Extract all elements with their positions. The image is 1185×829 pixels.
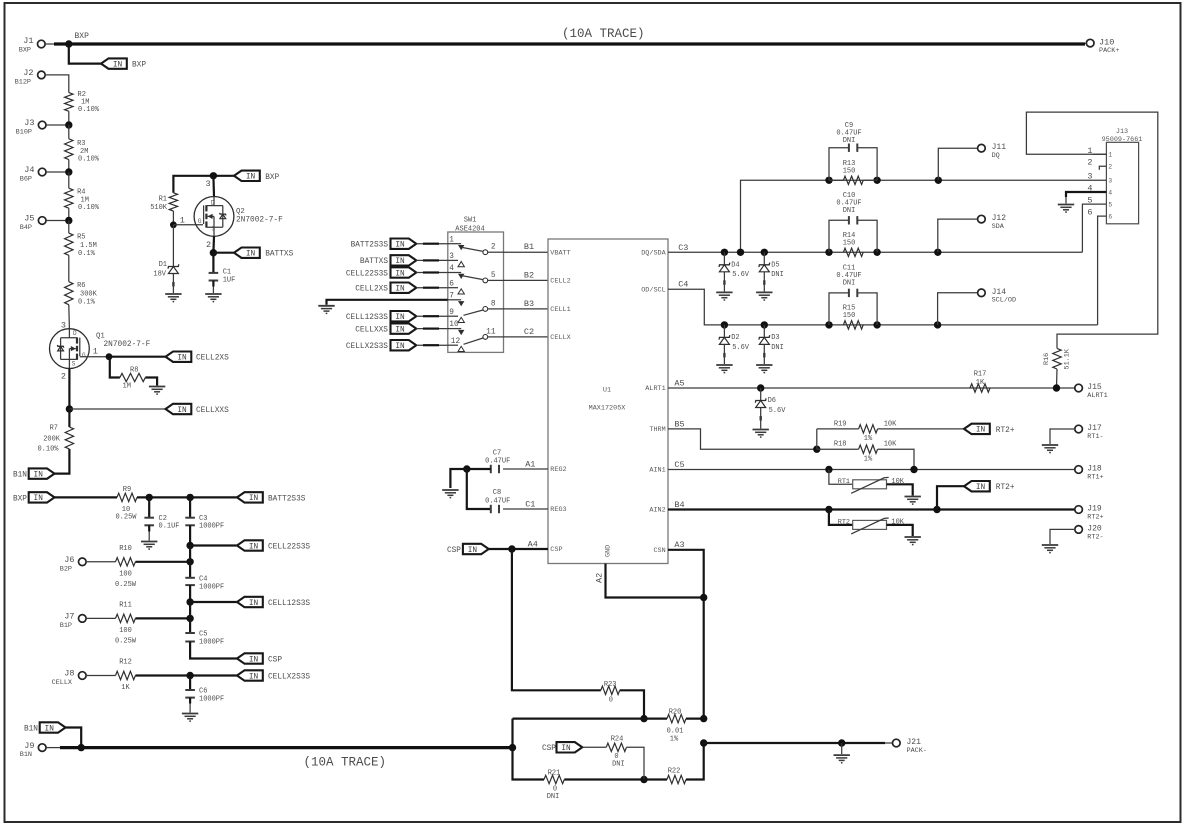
svg-text:G: G [82, 352, 86, 359]
svg-text:300K: 300K [80, 290, 98, 298]
resistor R22 [644, 768, 686, 784]
wire R20 row drop [511, 719, 513, 748]
flag IN CELL12S3S [237, 597, 310, 608]
svg-text:IN: IN [246, 174, 256, 182]
wire RT1 to ground [887, 484, 913, 495]
junction R15 right [873, 321, 880, 328]
wire node to ground [450, 469, 466, 488]
svg-text:IN: IN [395, 270, 405, 278]
connector J12 [978, 214, 1007, 231]
svg-text:6: 6 [449, 280, 454, 288]
flag IN B1N (bottom) [24, 722, 66, 733]
svg-text:DQ: DQ [992, 152, 1000, 160]
junction DQ left [825, 177, 832, 184]
wire to CELL12S3S flag [190, 601, 237, 603]
svg-text:1UF: 1UF [223, 277, 236, 285]
svg-text:CELL12S3S: CELL12S3S [268, 600, 310, 608]
svg-text:J18: J18 [1087, 465, 1102, 474]
SW1 switch 3 [464, 300, 504, 315]
wire J21 row [704, 742, 893, 744]
flag IN BXP (J1) [101, 58, 146, 69]
svg-text:7: 7 [449, 292, 454, 300]
connector J21 [893, 738, 927, 755]
svg-text:11: 11 [486, 328, 496, 336]
junction J4 [65, 168, 72, 175]
svg-text:CSP: CSP [542, 745, 556, 753]
svg-text:0.1%: 0.1% [78, 250, 96, 258]
junction CELL12S3S [186, 598, 193, 605]
resistor R18 [817, 441, 897, 464]
ground at C7/C8 [442, 490, 458, 498]
svg-text:IN: IN [249, 495, 259, 503]
wire C2 to CELLX [504, 327, 549, 337]
svg-text:B6P: B6P [20, 176, 32, 184]
svg-text:DNI: DNI [612, 760, 625, 768]
ground at RT1 [905, 497, 921, 505]
svg-text:0.10%: 0.10% [78, 106, 100, 114]
connector J7 [60, 612, 86, 630]
flag IN CELL22S3S [237, 540, 310, 551]
wire THRM row [668, 419, 817, 449]
svg-text:D3: D3 [771, 334, 779, 342]
svg-text:J5: J5 [24, 214, 34, 224]
wire J13 pin4 to ground [1066, 192, 1106, 204]
wire R22 up to J21 row [686, 743, 704, 780]
connector J9 [20, 741, 60, 759]
svg-text:5.6V: 5.6V [769, 407, 787, 415]
wire CSP down to R23 [512, 549, 601, 690]
zener D4 [719, 252, 750, 291]
SW1 switch 2 [463, 272, 504, 283]
junction D5 [761, 249, 768, 256]
wire R23 to R20 node [620, 690, 644, 718]
svg-text:2N7002-7-F: 2N7002-7-F [236, 217, 283, 225]
svg-text:ALRT1: ALRT1 [645, 385, 665, 393]
SW1 pin 6 [448, 280, 465, 294]
junction DQ vert [737, 249, 744, 256]
ground at D5 [756, 292, 772, 300]
flag IN BXP (R9) [13, 492, 55, 503]
flag IN CSP (left) [237, 653, 282, 664]
svg-text:1000PF: 1000PF [199, 523, 224, 531]
svg-text:B10P: B10P [16, 129, 32, 137]
flag IN CELL12S3S (SW1) [346, 311, 448, 322]
resistor R5 [65, 233, 97, 258]
svg-text:J7: J7 [64, 612, 74, 622]
ground at R8 [149, 387, 165, 395]
svg-text:3: 3 [449, 253, 454, 261]
svg-text:R9: R9 [123, 486, 131, 494]
resistor R19 [834, 420, 897, 443]
svg-text:D5: D5 [771, 261, 779, 269]
svg-text:J17: J17 [1087, 424, 1102, 433]
svg-text:(10A TRACE): (10A TRACE) [304, 756, 387, 770]
transistor Q2 [194, 197, 283, 237]
svg-text:1%: 1% [864, 435, 873, 443]
svg-text:R22: R22 [668, 768, 681, 776]
flag IN BATT2S3S (SW1) [351, 239, 448, 250]
svg-text:8: 8 [491, 300, 496, 308]
resistor R1 [150, 193, 177, 212]
junction rail J6 [186, 558, 193, 565]
junction RT2 [825, 506, 832, 513]
svg-text:R10: R10 [119, 545, 132, 553]
svg-text:0.47UF: 0.47UF [485, 497, 510, 505]
junction CELLXXS [66, 405, 73, 412]
svg-text:5.6V: 5.6V [732, 344, 750, 352]
svg-text:1: 1 [93, 347, 98, 357]
resistor R20 [667, 709, 686, 744]
connector J6 [60, 555, 86, 573]
svg-text:1: 1 [1108, 152, 1112, 159]
junction C7/C8 [463, 465, 470, 472]
svg-text:PACK+: PACK+ [1099, 47, 1119, 55]
svg-text:RT1+: RT1+ [1087, 473, 1103, 481]
svg-text:B5: B5 [674, 419, 684, 429]
wire AIN2 row [668, 500, 1075, 510]
switch SW1 box [448, 217, 504, 353]
svg-text:2N7002-7-F: 2N7002-7-F [104, 341, 151, 349]
svg-text:IN: IN [177, 407, 187, 415]
svg-text:Q2: Q2 [236, 208, 245, 216]
wire Q2 drain [206, 176, 215, 197]
svg-text:RT1-: RT1- [1087, 433, 1103, 441]
connector J15 [1075, 383, 1108, 400]
ground at SW1 pin7 [318, 306, 334, 314]
svg-text:BXP: BXP [75, 32, 90, 41]
wire J6 to R10 [86, 561, 116, 563]
svg-text:0.1UF: 0.1UF [159, 523, 180, 531]
svg-text:6: 6 [1108, 213, 1112, 220]
ground at C2 [141, 542, 157, 550]
wire R6 to Q1 drain [61, 305, 70, 331]
svg-text:R3: R3 [77, 140, 85, 148]
junction D3 [761, 321, 768, 328]
wire node to R8 [110, 357, 120, 378]
SW1 pin 9 [448, 309, 465, 323]
SW1 pin 10 [448, 321, 465, 335]
junction CSP [508, 545, 515, 552]
svg-text:PACK-: PACK- [907, 747, 927, 755]
connector J3 [16, 118, 69, 136]
svg-text:B1N: B1N [20, 751, 32, 759]
flag IN BATTXS (SW1) [360, 255, 448, 266]
junction R14 right [873, 249, 880, 256]
svg-text:1K: 1K [976, 379, 985, 387]
wire SW1 pin7 to ground [327, 300, 448, 305]
svg-text:D1: D1 [159, 261, 167, 269]
svg-text:200K: 200K [43, 436, 61, 444]
wire C6 to ground [189, 698, 191, 713]
svg-text:CELLX: CELLX [52, 679, 72, 687]
svg-text:B2: B2 [524, 270, 534, 280]
resistor R14 [843, 232, 864, 257]
ground at J17 [1042, 445, 1058, 453]
flag IN CSP (U1) [447, 544, 489, 555]
svg-text:1%: 1% [864, 455, 873, 463]
svg-text:CELLX2S3S: CELLX2S3S [346, 343, 388, 351]
svg-text:3: 3 [206, 179, 211, 189]
wire to R7 [68, 409, 70, 427]
svg-text:DQ/SDA: DQ/SDA [641, 249, 666, 257]
wire Q1 source [61, 369, 70, 409]
junction J11 tap [935, 177, 942, 184]
wire to BATTXS flag [213, 252, 234, 254]
capacitor C1 [209, 253, 236, 285]
wire SCL to J13 pin6 [1098, 216, 1107, 325]
svg-text:DNI: DNI [771, 271, 784, 279]
svg-text:ALRT1: ALRT1 [1087, 392, 1107, 400]
capacitor C3 [185, 497, 224, 530]
wire R2-J3 [68, 111, 70, 125]
wire RT2 to ground [887, 525, 913, 536]
wire to CELLXXS flag [69, 408, 165, 410]
wire OD/SCL row C4 [668, 280, 1098, 325]
wire C5 to CSP flag [190, 642, 237, 659]
wire Q2 top rail [173, 176, 234, 193]
svg-text:1: 1 [449, 236, 454, 244]
svg-text:C5: C5 [674, 460, 684, 470]
wire C1 to ground [212, 281, 214, 294]
connector J4 [20, 165, 69, 183]
svg-text:CELLXXS: CELLXXS [355, 326, 388, 334]
resistor R6 [65, 282, 98, 307]
capacitor C5 [185, 631, 224, 647]
svg-text:R11: R11 [119, 602, 132, 610]
wire R7 to B1N flag [54, 449, 69, 474]
junction D6 [757, 384, 764, 391]
wire R3-J4 [68, 160, 70, 172]
connector J2 [15, 68, 46, 86]
svg-text:A2: A2 [595, 573, 605, 583]
svg-text:0.10%: 0.10% [37, 446, 59, 454]
wire C2 to ground [148, 525, 150, 540]
svg-text:10K: 10K [884, 420, 897, 428]
wire R10 to rail [135, 561, 190, 563]
svg-text:510K: 510K [150, 204, 168, 212]
connector J5 [20, 214, 69, 232]
wire CSP flag to U1 [489, 539, 548, 549]
svg-text:3: 3 [1087, 172, 1092, 182]
svg-text:BATTXS: BATTXS [265, 251, 293, 259]
svg-text:IN: IN [395, 286, 405, 294]
svg-text:IN: IN [976, 427, 986, 435]
junction R18/AIN1 [910, 466, 917, 473]
wire B1N 10A trace [60, 746, 513, 749]
svg-text:B4P: B4P [20, 224, 32, 232]
svg-text:SW1: SW1 [464, 217, 477, 225]
svg-text:AIN1: AIN1 [649, 467, 665, 475]
svg-text:150: 150 [843, 168, 856, 176]
wire J13 pin1 loop [1026, 112, 1157, 348]
wire DQ row [741, 180, 1107, 252]
ground at J13 pin4 [1058, 205, 1074, 213]
svg-text:C1: C1 [525, 499, 535, 509]
svg-text:0.1%: 0.1% [78, 299, 96, 307]
svg-text:DNI: DNI [843, 207, 856, 215]
SW1 pin 3 [448, 253, 465, 267]
svg-text:B12P: B12P [15, 79, 31, 87]
svg-text:A1: A1 [525, 459, 535, 469]
svg-text:BATTXS: BATTXS [360, 258, 388, 266]
svg-text:CSP: CSP [550, 546, 562, 554]
capacitor C7 [485, 449, 510, 473]
svg-text:2: 2 [1087, 158, 1092, 168]
resistor R9 [115, 486, 137, 521]
junction C2 [146, 494, 153, 501]
svg-text:J6: J6 [64, 555, 74, 565]
svg-text:150: 150 [843, 312, 856, 320]
svg-text:D6: D6 [768, 397, 776, 405]
junction J1-BXP [65, 40, 72, 47]
junction D2 [721, 321, 728, 328]
svg-text:J15: J15 [1087, 383, 1102, 392]
svg-text:B1: B1 [524, 242, 534, 252]
transistor Q1 [50, 329, 151, 369]
resistor R23 [601, 681, 620, 704]
ground at J20 [1042, 545, 1058, 553]
svg-text:GND: GND [605, 545, 613, 557]
svg-text:G: G [198, 218, 202, 225]
zener D1 [153, 225, 178, 293]
svg-text:0.25W: 0.25W [115, 637, 137, 645]
junction C3 [186, 494, 193, 501]
ground at C1 [205, 294, 221, 302]
svg-text:5.6V: 5.6V [732, 271, 750, 279]
svg-text:RT2: RT2 [838, 519, 850, 527]
svg-text:D: D [73, 330, 77, 337]
svg-text:B1N: B1N [24, 726, 38, 734]
wire BXP flag to R9 [54, 496, 117, 498]
svg-text:CELL12S3S: CELL12S3S [346, 314, 388, 322]
flag IN BATT2S3S [237, 492, 306, 503]
junction R15 left [825, 321, 832, 328]
svg-text:IN: IN [395, 242, 405, 250]
junction J21 ground tap [838, 739, 845, 746]
svg-text:C3: C3 [678, 243, 688, 253]
svg-text:R6: R6 [77, 282, 85, 290]
svg-text:R16: R16 [1043, 353, 1051, 365]
wire REG2 stub [503, 459, 548, 469]
svg-text:IN: IN [976, 484, 986, 492]
svg-text:4: 4 [1108, 189, 1112, 196]
svg-text:BXP: BXP [132, 62, 146, 70]
svg-text:1000PF: 1000PF [199, 583, 224, 591]
connector J8 [52, 669, 87, 687]
resistor R21 [544, 770, 564, 801]
junction D4 [721, 249, 728, 256]
svg-text:IN: IN [395, 258, 405, 266]
wire C3 to CELL22S3S node [189, 525, 191, 545]
svg-text:IN: IN [113, 61, 123, 69]
wire J8 to R12 [86, 675, 116, 677]
ground at D6 [753, 430, 769, 438]
flag IN CELL22S3S (SW1) [346, 267, 448, 278]
svg-text:0.47UF: 0.47UF [485, 458, 510, 466]
flag IN B1N (top) [13, 468, 55, 479]
svg-text:MAX17205X: MAX17205X [589, 405, 626, 413]
svg-text:J20: J20 [1087, 525, 1102, 534]
flag IN BXP (Q2) [234, 171, 280, 182]
svg-text:J2: J2 [23, 68, 33, 78]
junction RT2+ flag tap [933, 506, 940, 513]
svg-text:BXP: BXP [13, 495, 27, 503]
flag IN CELLXXS [166, 404, 230, 415]
svg-text:5: 5 [491, 272, 496, 280]
svg-text:REG2: REG2 [550, 466, 566, 474]
svg-text:BATT2S3S: BATT2S3S [268, 495, 306, 503]
svg-text:R23: R23 [604, 681, 617, 689]
wire R5-R6 [68, 255, 70, 281]
svg-text:1M: 1M [123, 383, 131, 391]
svg-text:DNI: DNI [843, 137, 856, 145]
wire C7 to node [467, 468, 491, 470]
svg-text:B3: B3 [524, 299, 534, 309]
svg-text:A3: A3 [674, 540, 684, 550]
junction R20 right [700, 715, 707, 722]
junction R14 left [825, 249, 832, 256]
wire DQ/SDA row C3 [668, 243, 1082, 253]
wire rail to C5 [189, 602, 191, 633]
svg-text:CELL1: CELL1 [550, 306, 570, 314]
wire AIN1 row [668, 460, 1075, 470]
wire J21 tap to ground [841, 743, 843, 754]
capacitor C11 [829, 265, 877, 325]
svg-text:9: 9 [449, 309, 454, 317]
svg-text:DNI: DNI [771, 344, 784, 352]
svg-text:C2: C2 [524, 327, 534, 337]
flag IN CELLX2S3S [237, 670, 310, 681]
junction BATTXS [210, 249, 217, 256]
svg-text:D4: D4 [731, 261, 739, 269]
flag IN CELLXXS (SW1) [355, 323, 448, 334]
svg-text:CELL2XS: CELL2XS [196, 355, 229, 363]
svg-text:BXP: BXP [19, 47, 31, 55]
svg-text:IN: IN [395, 314, 405, 322]
svg-text:DNI: DNI [547, 793, 560, 801]
junction Q2 drain [210, 172, 217, 179]
svg-text:IN: IN [468, 547, 478, 555]
svg-text:CELL22S3S: CELL22S3S [346, 270, 388, 278]
svg-text:A4: A4 [528, 539, 538, 549]
wire J11 tap [938, 148, 978, 180]
capacitor C8 [485, 489, 510, 513]
junction J21 row [700, 739, 707, 746]
wire U1 GND to A2 [595, 564, 704, 598]
SW1 pin 12 [448, 338, 465, 352]
svg-text:IN: IN [395, 343, 405, 351]
zener D3 [759, 325, 784, 364]
svg-text:CSP: CSP [268, 657, 282, 665]
svg-text:(10A TRACE): (10A TRACE) [562, 27, 645, 41]
svg-text:AIN2: AIN2 [649, 507, 665, 515]
svg-text:4: 4 [449, 265, 454, 273]
connector J20 [1075, 525, 1104, 542]
svg-text:0: 0 [609, 696, 613, 704]
svg-text:1: 1 [180, 215, 185, 225]
wire J17 to ground [1050, 429, 1075, 444]
svg-text:J21: J21 [907, 738, 922, 747]
svg-text:RT2+: RT2+ [996, 427, 1015, 435]
svg-text:5: 5 [1087, 196, 1092, 206]
capacitor C9 [829, 122, 877, 180]
svg-text:C8: C8 [493, 489, 501, 497]
junction rail J8 [186, 672, 193, 679]
zener D5 [759, 252, 784, 291]
junction R16/ALRT1 [1053, 384, 1060, 391]
thermistor RT2 [838, 518, 905, 534]
svg-text:12: 12 [451, 338, 461, 346]
